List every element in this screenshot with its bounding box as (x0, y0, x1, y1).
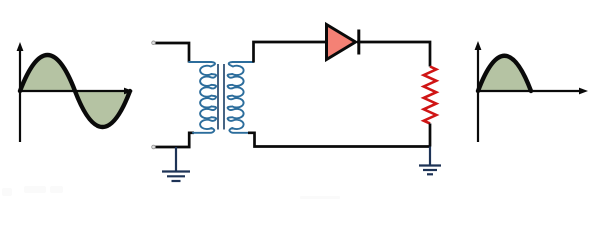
faint watermark remnants (2, 186, 340, 199)
transformer core (218, 64, 224, 130)
diode cathode bar (357, 30, 360, 55)
wire primary bottom (155, 133, 194, 147)
output waveform outline (478, 56, 531, 91)
output waveform fill (478, 56, 531, 91)
wire secondary top to diode (254, 42, 328, 63)
resistor R zigzag (424, 67, 437, 124)
transformer primary coil (189, 62, 216, 133)
terminal bottom-left (152, 145, 156, 149)
input x-axis arrowhead (124, 88, 133, 95)
diode D1 triangle (327, 25, 356, 60)
input waveform fill (20, 55, 130, 127)
output graph y-axis (477, 48, 479, 142)
terminal top-left (152, 41, 156, 45)
output x-axis arrowhead (579, 88, 588, 95)
wire primary top (155, 43, 189, 63)
output y-axis arrowhead (475, 41, 482, 50)
wire secondary bottom (248, 133, 431, 147)
ground left (162, 147, 190, 181)
output graph x-axis (478, 90, 581, 92)
wire diode to resistor (357, 42, 430, 67)
input graph x-axis (20, 90, 126, 92)
resistor bottom lead (429, 124, 432, 147)
ground right (419, 147, 441, 175)
input graph y-axis (19, 49, 21, 142)
transformer secondary coil (228, 62, 254, 133)
input waveform outline (20, 55, 130, 127)
input y-axis arrowhead (17, 42, 24, 51)
